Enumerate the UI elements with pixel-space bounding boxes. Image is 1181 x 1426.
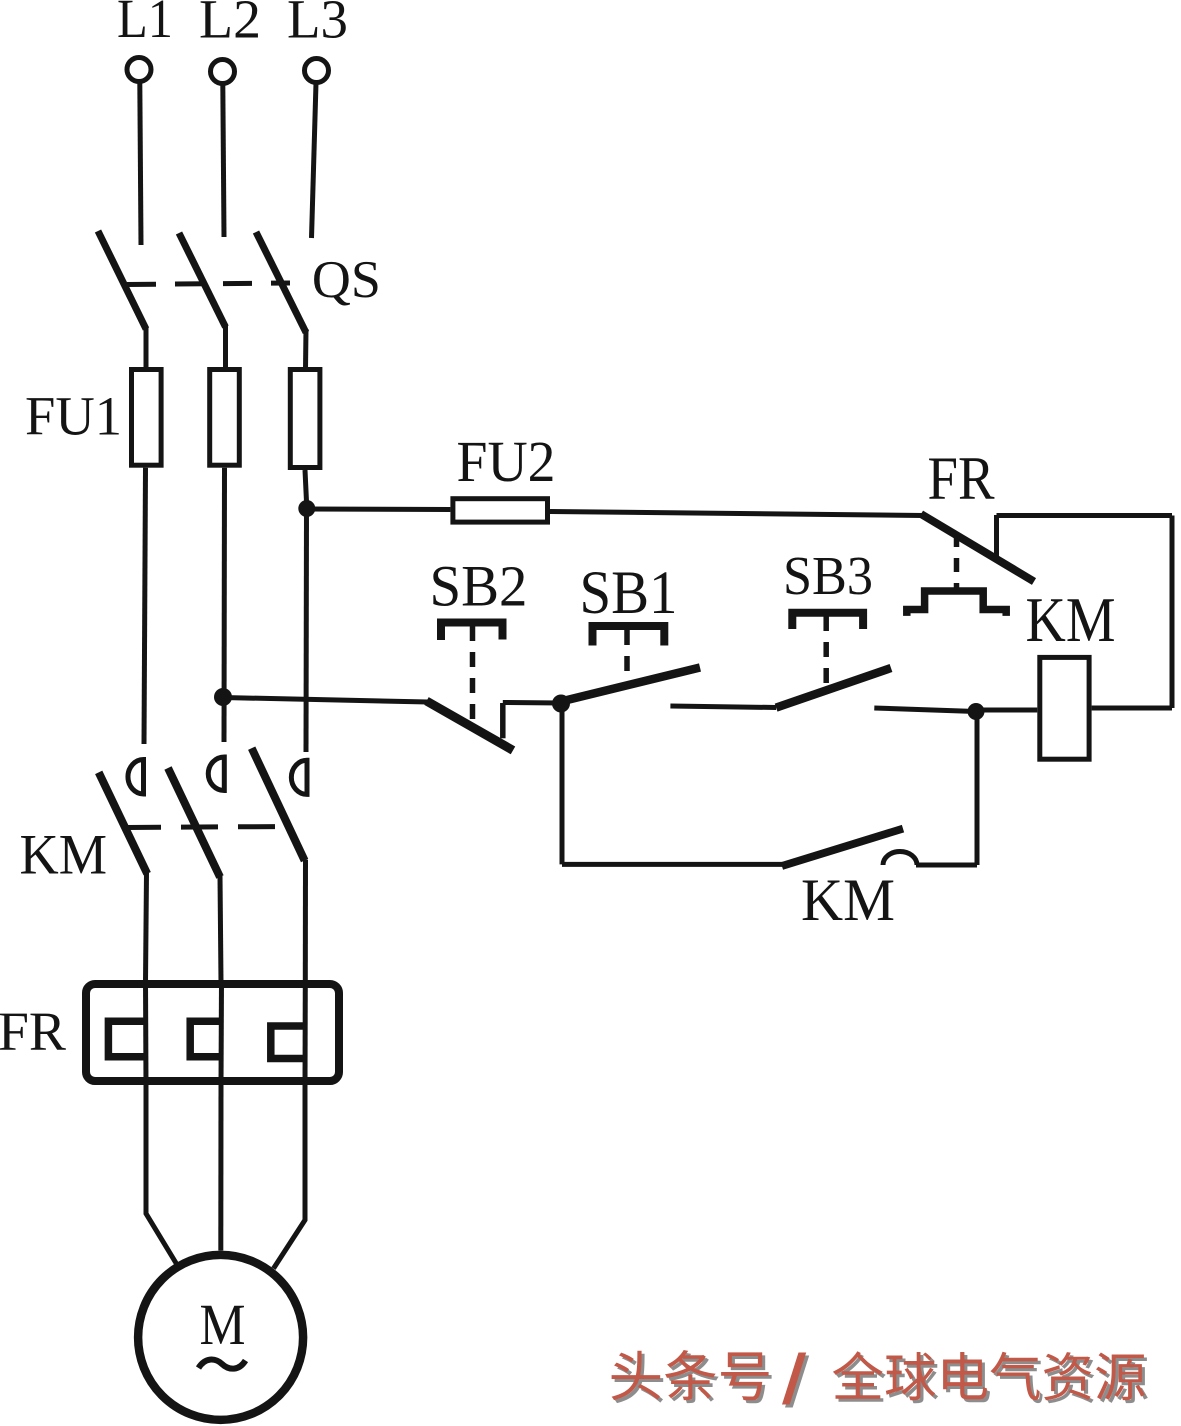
node D junction dot bbox=[968, 703, 985, 720]
wire top right loop bbox=[997, 513, 1173, 518]
wire QS1 to FU1 bbox=[144, 326, 149, 369]
svg-text:KM: KM bbox=[1026, 585, 1116, 655]
wire node A to FU2 bbox=[307, 507, 451, 513]
terminal circle L3 bbox=[305, 59, 329, 83]
fuse FU1 pole 2 bbox=[210, 370, 240, 466]
contactor KM main linkage dashed bbox=[124, 827, 286, 828]
wire KM3 to FR box bbox=[303, 860, 308, 982]
thermal relay FR phase 3 through-line bbox=[303, 981, 308, 1085]
svg-text:SB1: SB1 bbox=[580, 560, 678, 627]
fuse FU2 bbox=[453, 499, 548, 522]
motor AC tilde bbox=[199, 1360, 246, 1369]
svg-text:FU2: FU2 bbox=[457, 429, 556, 494]
wire KM aux to right vertical bbox=[916, 863, 977, 868]
contactor KM main pole 2 blade bbox=[168, 768, 220, 877]
wire QS3 to FU1 bbox=[303, 329, 309, 369]
thermal relay FR heater element 3 bbox=[271, 1026, 305, 1059]
svg-text:L3: L3 bbox=[287, 0, 348, 50]
switch QS pole 1 blade bbox=[98, 231, 146, 329]
button SB1 head bbox=[593, 626, 665, 646]
wire FU2 to FR contact bbox=[550, 512, 924, 516]
wire SB2 to node C bbox=[503, 700, 561, 706]
svg-text:FR: FR bbox=[0, 1001, 66, 1062]
wire KM1 to FR box bbox=[146, 873, 147, 982]
node A junction dot bbox=[298, 500, 315, 517]
relay contact FR blade bbox=[921, 514, 1034, 582]
thermal relay FR heater element 2 bbox=[190, 1021, 221, 1057]
wire node D to coil bbox=[976, 708, 1037, 713]
contact KM aux blade bbox=[782, 829, 903, 866]
button SB3 head bbox=[792, 613, 863, 629]
contactor KM main pole 1 fixed arc bbox=[128, 760, 144, 795]
button SB2 dashed actuator bbox=[470, 626, 476, 726]
wire FU1-2 down to KM contact bbox=[222, 468, 228, 742]
relay contact FR fixed terminal bbox=[994, 515, 999, 556]
watermark text red bbox=[612, 1350, 1145, 1405]
svg-text:QS: QS bbox=[312, 251, 381, 309]
button SB2 fixed terminal bbox=[500, 703, 506, 738]
wire self-hold bottom horizontal bbox=[562, 862, 784, 867]
coil KM bbox=[1040, 657, 1089, 759]
svg-text:L1: L1 bbox=[117, 0, 173, 49]
button SB2 head bbox=[441, 623, 503, 641]
wire right vertical up to node D bbox=[975, 712, 980, 866]
switch QS linkage dashed bbox=[127, 283, 290, 285]
terminal circle L1 bbox=[127, 58, 151, 82]
button SB1 dashed actuator bbox=[624, 630, 630, 686]
button SB2 blade bbox=[427, 701, 514, 750]
wire right side vertical bbox=[1170, 516, 1175, 709]
wire node C down (self-hold branch) bbox=[560, 704, 565, 865]
terminal circle L2 bbox=[211, 60, 235, 84]
relay contact FR dashed actuator bbox=[954, 533, 960, 588]
wire KM2 to FR box bbox=[220, 876, 221, 982]
wire SB3 to node D bbox=[874, 708, 976, 712]
wire FU1-1 down to KM contact bbox=[144, 468, 146, 744]
wire QS2 to FU1 bbox=[223, 324, 228, 369]
thermal relay FR phase 2 through-line bbox=[219, 981, 225, 1085]
node C junction dot bbox=[552, 695, 570, 713]
svg-text:SB2: SB2 bbox=[430, 554, 528, 619]
thermal relay FR phase 1 through-line bbox=[143, 981, 149, 1085]
node B junction dot on L2 bbox=[214, 688, 232, 706]
wire coil to right side bbox=[1092, 706, 1172, 711]
contactor KM main pole 1 blade bbox=[99, 772, 148, 873]
wire node A down to KM contact bbox=[304, 509, 310, 753]
svg-text:KM: KM bbox=[801, 867, 895, 933]
thermal relay FR box bbox=[86, 984, 339, 1081]
wire L2 drop bbox=[223, 84, 224, 237]
watermark shadow bbox=[615, 1353, 1148, 1408]
svg-text:FR: FR bbox=[928, 446, 995, 513]
contactor KM main pole 3 fixed arc bbox=[291, 760, 307, 794]
svg-text:KM: KM bbox=[20, 824, 108, 887]
wire FR box to motor phase 3 bbox=[274, 1085, 306, 1269]
svg-text:L2: L2 bbox=[199, 0, 261, 50]
fuse FU1 pole 3 bbox=[290, 370, 320, 468]
motor M circle bbox=[138, 1255, 303, 1420]
thermal relay FR heater element 1 bbox=[108, 1021, 145, 1057]
wire FR box to motor phase 2 bbox=[218, 1085, 223, 1251]
switch QS pole 3 blade bbox=[256, 232, 306, 333]
button SB1 blade bbox=[563, 668, 700, 702]
contactor KM main pole 3 blade bbox=[252, 748, 305, 860]
contact KM aux fixed arc bbox=[883, 852, 917, 866]
button SB3 blade bbox=[776, 668, 891, 708]
svg-text:M: M bbox=[200, 1292, 246, 1357]
button SB3 dashed actuator bbox=[823, 616, 829, 687]
wire L3 drop bbox=[312, 83, 317, 238]
switch QS pole 2 blade bbox=[179, 233, 226, 327]
fuse FU1 pole 1 bbox=[132, 370, 162, 466]
wire SB1 to SB3 bbox=[670, 706, 776, 708]
wire FU1-3 down to node A bbox=[305, 470, 307, 508]
wire L1 drop bbox=[140, 82, 141, 245]
wire node B to SB2 bbox=[223, 698, 428, 703]
wire FR box to motor phase 1 bbox=[146, 1085, 177, 1265]
contactor KM main pole 2 fixed arc bbox=[208, 757, 224, 791]
svg-text:SB3: SB3 bbox=[783, 545, 873, 606]
svg-text:FU1: FU1 bbox=[25, 386, 122, 447]
relay contact FR thermal symbol bbox=[907, 591, 1006, 616]
